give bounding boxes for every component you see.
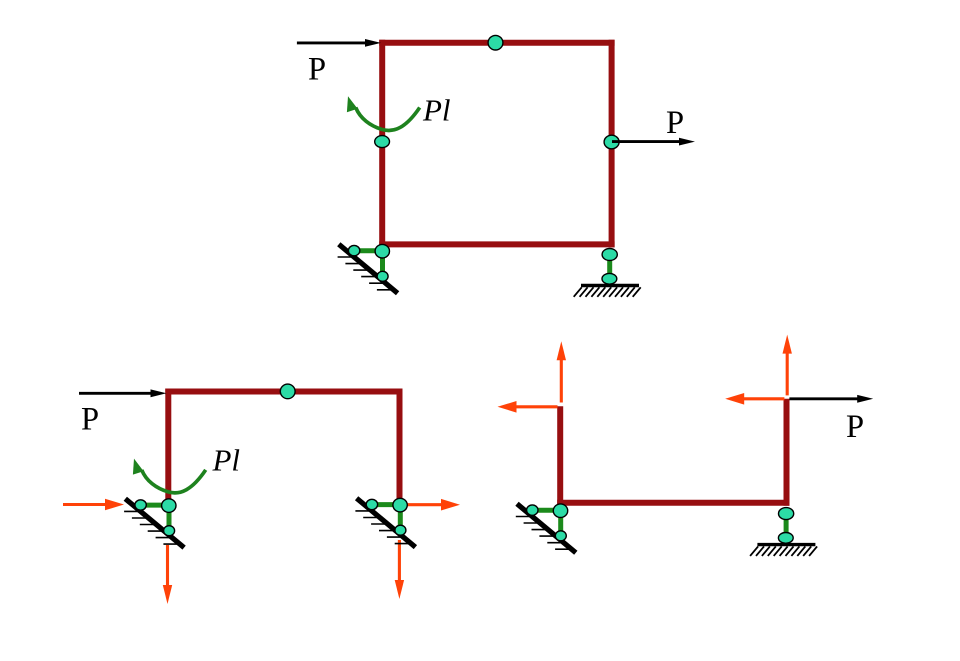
reaction arrow vertical (figure 2 left support) [163,545,172,604]
inclined surface line [517,504,576,553]
lower hinge circle [602,273,617,284]
figure 3 frame (U shape) [557,399,789,506]
load arrow P (figure 1 right) [612,138,695,146]
right column [784,399,790,506]
hinge on right column (figure 1) [604,135,619,149]
inclined surface line [125,499,184,548]
hatching [355,511,412,544]
inclined surface line [357,498,416,547]
svg-text:P: P [666,105,684,141]
load arrow P (figure 3) [789,395,873,403]
reaction arrow horizontal (figure 2 right support) [401,499,460,511]
svg-text:Pl: Pl [422,93,451,128]
ground hatching [750,546,817,556]
small hinge circle left [348,245,359,255]
vertical link bar [558,511,563,536]
ground hatching [574,287,641,297]
ground line [757,543,815,546]
right column [397,389,403,504]
pinned link support (figure 1 bottom right) [574,249,641,297]
vertical link bar [398,505,403,530]
lower hinge circle [164,526,175,536]
lower hinge circle [377,271,388,281]
load arrow P (figure 2) [79,389,167,397]
horizontal link bar [533,508,561,513]
main hinge circle [393,498,407,512]
left column [557,406,563,506]
hatching [516,517,573,550]
top beam [379,40,614,46]
small hinge circle left [527,505,538,515]
svg-text:P: P [81,402,99,438]
moment arc Pl (figure 1) [347,96,420,130]
vertical link bar [167,506,172,531]
horizontal link bar [141,503,169,508]
svg-text:P: P [308,52,326,88]
reaction arrow up (figure 3 left column) [557,341,566,402]
top beam [165,389,402,395]
small hinge circle left [366,499,377,509]
small hinge circle left [135,500,146,510]
inclined pin support (figure 3 left) [516,504,576,553]
load arrow P (figure 1 top left) [297,39,381,47]
main hinge circle [375,244,389,258]
hatching [124,511,181,544]
lower hinge circle [555,531,566,541]
moment arc Pl (figure 2) [133,459,206,493]
right column [609,40,615,248]
reaction arrow up (figure 3 right column) [783,335,792,396]
figure 2 frame (portal) [165,389,402,504]
main hinge circle [162,499,176,513]
main hinge circle [553,504,567,518]
support link bar [784,514,789,538]
reaction arrow left (figure 3 right column) [725,393,784,405]
upper hinge circle [602,249,617,261]
lower hinge circle [395,525,406,535]
upper hinge circle [779,508,794,520]
svg-text:P: P [846,409,864,445]
left column [165,389,171,504]
left column [379,40,385,248]
inclined pin support (figure 2 right) [355,498,415,547]
ground line [581,284,639,287]
reaction arrow left (figure 3 left column) [498,401,558,413]
hinge on top beam (figure 1) [488,35,503,50]
inclined pin support (figure 1 bottom left) [338,244,398,293]
reaction arrow horizontal (figure 2 left support) [63,499,124,511]
bottom beam [557,500,789,506]
inclined pin support (figure 2 left) [124,499,184,548]
lower hinge circle [778,533,793,544]
figure 1 frame (closed rectangle) [379,40,614,248]
horizontal link bar [354,248,382,253]
bottom beam [379,241,614,247]
hinge on top beam (figure 2) [280,384,295,399]
horizontal link bar [372,502,400,507]
vertical link bar [380,251,385,276]
support link bar [607,255,612,279]
hatching [338,257,395,290]
inclined surface line [339,244,398,293]
reaction arrow vertical (figure 2 right support) [395,540,404,599]
pinned link support (figure 3 right) [750,508,817,556]
svg-text:Pl: Pl [212,443,241,478]
hinge on left column (figure 1) [375,136,390,148]
